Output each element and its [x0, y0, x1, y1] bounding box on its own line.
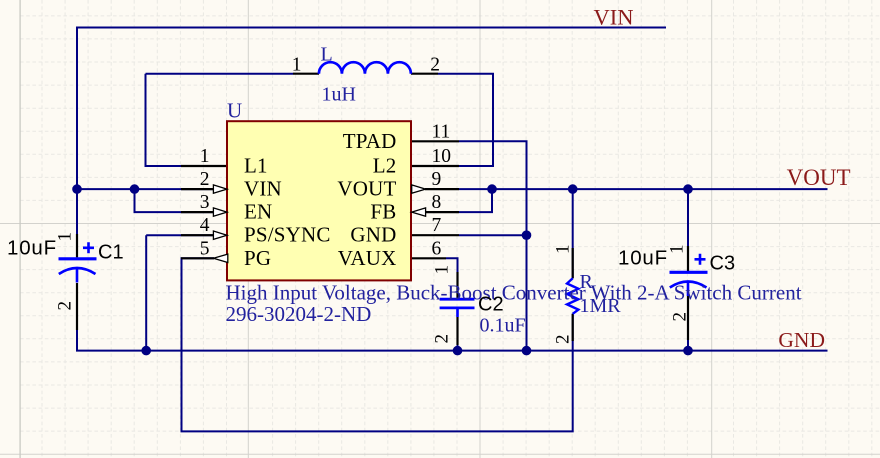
svg-text:L2: L2: [373, 154, 397, 178]
svg-text:VIN: VIN: [594, 5, 634, 30]
svg-text:8: 8: [432, 192, 442, 213]
svg-text:10: 10: [432, 146, 452, 167]
svg-text:C1: C1: [98, 242, 124, 264]
svg-text:High Input Voltage, Buck-Boost: High Input Voltage, Buck-Boost Converter…: [226, 281, 802, 305]
svg-text:4: 4: [200, 215, 210, 236]
svg-text:PG: PG: [244, 246, 271, 270]
svg-text:11: 11: [432, 121, 451, 142]
svg-text:1: 1: [553, 245, 574, 255]
svg-text:3: 3: [200, 192, 210, 213]
svg-text:2: 2: [55, 301, 76, 311]
svg-text:GND: GND: [350, 223, 396, 247]
svg-text:1: 1: [667, 245, 688, 255]
svg-text:C2: C2: [478, 294, 504, 316]
svg-text:C3: C3: [710, 253, 736, 275]
svg-text:VOUT: VOUT: [787, 165, 851, 190]
svg-text:1: 1: [55, 232, 76, 242]
svg-text:PS/SYNC: PS/SYNC: [244, 223, 331, 247]
svg-text:10uF: 10uF: [618, 247, 668, 270]
svg-text:L1: L1: [244, 154, 268, 178]
svg-text:VIN: VIN: [244, 177, 282, 201]
svg-text:2: 2: [669, 312, 690, 322]
svg-text:1: 1: [432, 265, 453, 275]
svg-text:U: U: [227, 99, 242, 123]
svg-text:2: 2: [200, 169, 210, 190]
svg-text:1uH: 1uH: [322, 83, 356, 105]
svg-text:1: 1: [200, 146, 210, 167]
svg-text:L: L: [321, 44, 333, 66]
svg-text:10uF: 10uF: [7, 237, 57, 260]
svg-text:FB: FB: [370, 200, 396, 224]
svg-text:TPAD: TPAD: [343, 129, 397, 153]
svg-text:1: 1: [292, 55, 302, 76]
svg-text:6: 6: [432, 238, 442, 259]
svg-text:2: 2: [553, 335, 574, 345]
svg-text:296-30204-2-ND: 296-30204-2-ND: [226, 302, 372, 326]
svg-text:5: 5: [200, 238, 210, 259]
svg-text:GND: GND: [778, 328, 825, 352]
svg-text:VOUT: VOUT: [337, 177, 396, 201]
svg-text:VAUX: VAUX: [338, 246, 397, 270]
svg-text:2: 2: [430, 55, 440, 76]
svg-text:7: 7: [432, 215, 442, 236]
svg-text:0.1uF: 0.1uF: [480, 315, 526, 337]
svg-text:EN: EN: [244, 200, 272, 224]
svg-text:2: 2: [432, 334, 453, 344]
svg-text:9: 9: [432, 169, 442, 190]
